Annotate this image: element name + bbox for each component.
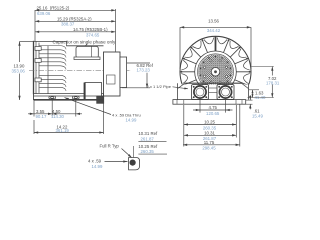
- blower housing outer rim: [180, 36, 251, 107]
- manifold block: [177, 83, 179, 99]
- radial ribs with scalloped webs: [215, 37, 217, 52]
- dims 3.55 / 4.50 (foot holes): [33, 100, 35, 116]
- dim 25.16 (R5125-2): [35, 9, 116, 11]
- dim 11.75: [183, 144, 240, 146]
- svg-text:10.31 Ref: 10.31 Ref: [138, 131, 158, 136]
- rib/rim junction bosses: [215, 37, 217, 39]
- svg-text:260.35: 260.35: [141, 149, 155, 154]
- svg-text:15.49: 15.49: [252, 113, 263, 118]
- svg-text:261.87: 261.87: [141, 136, 155, 141]
- base plate (front view): [173, 100, 246, 105]
- hub: [211, 68, 220, 77]
- outer guard hole ring: [215, 56, 217, 58]
- dim 1.63 (base height): [249, 89, 260, 91]
- dim 13.56 (housing dia): [179, 27, 181, 69]
- svg-text:4 x .59: 4 x .59: [88, 159, 102, 164]
- svg-text:90.17: 90.17: [36, 114, 47, 119]
- dim .61 (plate thickness): [246, 99, 253, 101]
- svg-text:14.99: 14.99: [92, 164, 103, 169]
- svg-text:114.30: 114.30: [51, 114, 65, 119]
- pedestal foot under housing: [96, 96, 104, 104]
- dim 10.31: [184, 134, 237, 136]
- svg-text:4.75: 4.75: [208, 105, 217, 110]
- dim 13.90 height (left): [20, 41, 34, 43]
- capacitor C (single phase): [76, 46, 98, 58]
- motor through-bolts: [35, 47, 41, 51]
- svg-text:344.42: 344.42: [207, 28, 221, 33]
- dim 6.82 Ref (pipe height, side): [127, 62, 151, 64]
- flange bolts: [193, 86, 195, 88]
- svg-text:2 x 1 1/2 Pipe: 2 x 1 1/2 Pipe: [147, 84, 172, 89]
- svg-text:Capacitor on single phase only: Capacitor on single phase only: [53, 39, 117, 44]
- svg-text:361.19: 361.19: [56, 128, 70, 133]
- dim 10.25: [184, 124, 237, 126]
- guard bolt ring: [219, 60, 221, 62]
- svg-text:11.75: 11.75: [204, 140, 215, 145]
- foot profile detail: [129, 158, 140, 170]
- dim 4.75 (port spacing): [199, 100, 201, 113]
- base width dim stack: [183, 105, 185, 147]
- pipe flange L: [192, 85, 209, 100]
- dim 14.22 base length: [103, 100, 105, 134]
- svg-text:25.16 (R5125-2): 25.16 (R5125-2): [37, 5, 70, 10]
- dim 15.29 (R5325A-2): [35, 20, 116, 22]
- pipe flange R: [217, 85, 234, 100]
- svg-text:374.65: 374.65: [86, 32, 100, 37]
- motor shell: [67, 45, 104, 47]
- svg-text:173.23: 173.23: [137, 68, 151, 73]
- svg-text:14.99: 14.99: [126, 117, 137, 122]
- svg-text:Full R Typ: Full R Typ: [100, 144, 120, 149]
- perforated fan guard (speckle): [198, 55, 233, 90]
- svg-text:178.31: 178.31: [266, 81, 280, 86]
- svg-text:10.31: 10.31: [204, 130, 215, 135]
- base foot pads with holes: [49, 96, 56, 99]
- svg-text:10.25: 10.25: [204, 120, 215, 125]
- detail vertical ext: [132, 146, 134, 158]
- svg-text:353.06: 353.06: [12, 68, 26, 73]
- base channel (side view): [33, 94, 35, 100]
- svg-text:120.65: 120.65: [206, 111, 220, 116]
- housing cover plate (side): [120, 57, 127, 88]
- muffler box under housing: [85, 83, 102, 100]
- svg-text:14.75 (R5325B-1): 14.75 (R5325B-1): [73, 27, 108, 32]
- svg-text:639.06: 639.06: [37, 11, 51, 16]
- svg-text:298.45: 298.45: [202, 146, 216, 151]
- inner rings: [195, 51, 237, 93]
- side view: motor end bell with cooling fins: [34, 42, 67, 94]
- svg-text:10.25 Ref: 10.25 Ref: [138, 144, 158, 149]
- blower housing (side): [104, 52, 121, 96]
- extension lines for length dims: [34, 10, 36, 41]
- port bores: [194, 86, 206, 98]
- leader: 4 x .59 Dia Thru: [65, 98, 112, 115]
- dim 7.02 (pipe center height): [252, 66, 274, 68]
- svg-text:13.56: 13.56: [208, 18, 219, 23]
- pipe port stub (side): [107, 75, 116, 84]
- capacitor saddle: [74, 57, 100, 60]
- svg-text:388.37: 388.37: [61, 21, 75, 26]
- dim 14.75 (R5325B-1): [35, 31, 116, 33]
- centerline: [29, 70, 131, 72]
